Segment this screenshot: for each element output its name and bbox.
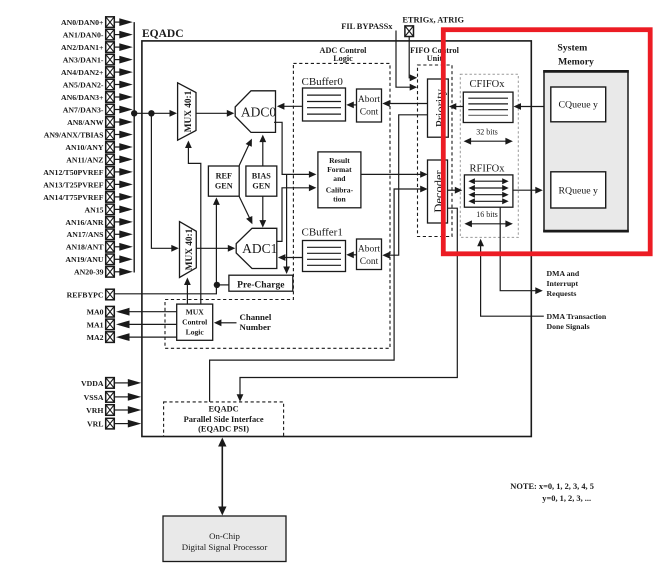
- wire RFIFO to RQueue / System Memory: [513, 187, 543, 194]
- svg-text:VRL: VRL: [87, 420, 103, 429]
- pin AN1/DAN0-: [63, 29, 133, 40]
- wire MUX Control Logic up to MUX1: [184, 278, 191, 305]
- svg-text:Cont: Cont: [360, 108, 379, 118]
- svg-text:CQueue y: CQueue y: [558, 100, 598, 111]
- red highlight box: [443, 30, 650, 254]
- svg-text:MUX: MUX: [186, 307, 205, 316]
- svg-text:32 bits: 32 bits: [476, 128, 498, 137]
- svg-text:AN15: AN15: [84, 205, 103, 214]
- wire Decoder down to EQADC PSI: [237, 208, 458, 402]
- svg-text:Calibra-: Calibra-: [326, 185, 354, 194]
- block CFIFOx register stack: [463, 92, 513, 122]
- pin AN14/T75PVREF: [43, 192, 133, 203]
- label DMA Transaction Done Signals: [547, 312, 607, 331]
- wire ADC0 to Result Format: [274, 122, 316, 178]
- label DMA and Interrupt Requests: [547, 269, 580, 298]
- svg-text:AN12/T50PVREF: AN12/T50PVREF: [43, 168, 103, 177]
- svg-text:AN19/ANU: AN19/ANU: [65, 255, 103, 264]
- pin AN6/DAN3+: [61, 92, 133, 103]
- pin AN4/DAN2+: [61, 67, 133, 78]
- svg-text:MA2: MA2: [87, 333, 104, 342]
- svg-text:DMA and: DMA and: [547, 269, 580, 278]
- wire EQADC PSI up to Decoder: [210, 186, 428, 402]
- svg-text:GEN: GEN: [252, 182, 270, 191]
- svg-text:Parallel Side Interface: Parallel Side Interface: [184, 415, 264, 424]
- svg-text:REF: REF: [216, 172, 232, 181]
- svg-text:ETRIGx, ATRIG: ETRIGx, ATRIG: [402, 15, 464, 24]
- svg-text:VSSA: VSSA: [84, 393, 104, 402]
- svg-text:EQADC: EQADC: [208, 405, 238, 414]
- wire ETRIGx to FIFO Control Unit: [409, 37, 417, 82]
- svg-text:GEN: GEN: [215, 182, 233, 191]
- svg-text:Cont: Cont: [360, 257, 379, 267]
- svg-text:AN20-39: AN20-39: [74, 268, 104, 277]
- wire branch down to MUX1 input: [151, 113, 178, 251]
- svg-text:FIL BYPASSx: FIL BYPASSx: [341, 22, 393, 31]
- double arrow 32 bits width: [464, 138, 513, 145]
- svg-text:NOTE: x=0, 1, 2, 3, 4, 5: NOTE: x=0, 1, 2, 3, 4, 5: [510, 482, 594, 491]
- svg-text:AN9/ANX/TBIAS: AN9/ANX/TBIAS: [44, 130, 104, 139]
- svg-text:AN1/DAN0-: AN1/DAN0-: [63, 31, 104, 40]
- pin VSSA: [84, 392, 142, 403]
- svg-text:AN6/DAN3+: AN6/DAN3+: [61, 93, 104, 102]
- svg-text:Logic: Logic: [186, 327, 205, 336]
- pin AN5/DAN2-: [63, 79, 133, 90]
- svg-text:Format: Format: [327, 165, 352, 174]
- wire REF GEN to ADC1 (diagonal): [239, 197, 252, 225]
- block RQueue y: [551, 172, 606, 208]
- wire BIAS GEN to ADC0: [259, 135, 266, 166]
- svg-text:CFIFOx: CFIFOx: [469, 79, 505, 90]
- svg-text:Digital Signal Processor: Digital Signal Processor: [182, 542, 268, 552]
- dashed box ADC Control Logic: [165, 63, 390, 348]
- label System Memory: [557, 43, 594, 68]
- svg-text:(EQADC PSI): (EQADC PSI): [198, 425, 249, 434]
- svg-text:RFIFOx: RFIFOx: [469, 164, 505, 175]
- block Result Format and Calibration: [318, 152, 361, 208]
- wire Priority to Abort Cont (lower): [382, 115, 427, 259]
- pin AN7/DAN3-: [63, 104, 133, 115]
- wire Abort Cont to CBuffer0: [346, 102, 356, 109]
- block REF GEN: [208, 166, 239, 196]
- svg-text:CBuffer1: CBuffer1: [302, 227, 343, 239]
- pin MA1: [87, 319, 177, 330]
- pin AN10/ANY: [65, 142, 132, 153]
- svg-text:Pre-Charge: Pre-Charge: [237, 280, 284, 290]
- svg-text:DMA Transaction: DMA Transaction: [547, 312, 607, 321]
- pin AN12/T50PVREF: [43, 167, 133, 178]
- svg-text:ADC1: ADC1: [242, 241, 277, 256]
- svg-text:RQueue y: RQueue y: [558, 185, 598, 196]
- svg-text:AN10/ANY: AN10/ANY: [65, 143, 103, 152]
- svg-text:BIAS: BIAS: [252, 172, 272, 181]
- note about x and y values: [510, 482, 594, 503]
- svg-text:Memory: Memory: [558, 56, 594, 67]
- svg-text:Logic: Logic: [333, 54, 353, 63]
- wire BIAS GEN to ADC1: [259, 196, 266, 227]
- pin MA0: [87, 306, 177, 317]
- wire MUX1 output to ADC1: [196, 245, 235, 252]
- svg-text:Channel: Channel: [240, 312, 272, 322]
- svg-text:VDDA: VDDA: [81, 379, 104, 388]
- wire MUX Control Logic up to MUX0: [185, 141, 201, 305]
- svg-text:System: System: [557, 43, 587, 54]
- svg-text:AN11/ANZ: AN11/ANZ: [66, 155, 103, 164]
- pin AN19/ANU: [65, 254, 132, 265]
- svg-text:and: and: [333, 174, 346, 183]
- wire CFIFO to Priority: [449, 103, 464, 110]
- wire CBuffer0 to ADC0: [277, 103, 303, 110]
- svg-text:AN4/DAN2+: AN4/DAN2+: [61, 68, 104, 77]
- wire DMA transaction done signals up into FIFOs: [477, 239, 544, 316]
- pin REFBYPC: [67, 289, 115, 300]
- pin AN20-39: [74, 267, 133, 278]
- svg-text:tion: tion: [333, 195, 346, 204]
- wire Abort Cont to CBuffer1: [346, 251, 356, 258]
- analog input bus: [133, 22, 135, 272]
- label FIFO Control Unit: [410, 46, 459, 63]
- svg-text:16 bits: 16 bits: [476, 210, 498, 219]
- block CQueue y: [551, 87, 606, 122]
- wire MUX0 output to ADC0: [196, 110, 234, 117]
- block Abort Cont (upper): [357, 89, 382, 122]
- MUX 40:1 upper (U-MUX0): [178, 83, 196, 140]
- svg-text:Control: Control: [182, 317, 207, 326]
- svg-text:Result: Result: [329, 156, 350, 165]
- svg-text:EQADC: EQADC: [142, 28, 184, 40]
- pin AN9/ANX/TBIAS: [44, 129, 133, 140]
- svg-text:Requests: Requests: [547, 289, 577, 298]
- label Channel Number with arrow to MUX Control Logic: [214, 312, 272, 332]
- block CBuffer1: [303, 241, 346, 272]
- svg-text:On-Chip: On-Chip: [209, 531, 240, 541]
- svg-text:AN8/ANW: AN8/ANW: [67, 118, 104, 127]
- svg-text:AN7/DAN3-: AN7/DAN3-: [63, 105, 104, 114]
- pin AN16/ANR: [65, 217, 132, 228]
- wire bus to MUX0 input: [134, 110, 177, 117]
- pin MA2: [87, 332, 177, 343]
- svg-text:MUX 40:1: MUX 40:1: [184, 90, 194, 132]
- wire REFBYPC to REF GEN (via Pre-Charge junction): [114, 197, 220, 293]
- pin AN8/ANW: [67, 117, 133, 128]
- wire junction to Pre-Charge: [216, 284, 229, 286]
- svg-text:Interrupt: Interrupt: [547, 279, 579, 288]
- MUX 40:1 lower (U-MUX1): [180, 222, 197, 278]
- svg-text:MA1: MA1: [87, 320, 104, 329]
- wire ADC1 to Result Format: [277, 184, 317, 241]
- svg-text:MUX 40:1: MUX 40:1: [185, 228, 195, 270]
- svg-text:y=0, 1, 2, 3, ...: y=0, 1, 2, 3, ...: [542, 494, 591, 503]
- pin AN18/ANT: [66, 242, 133, 253]
- wire CBuffer1 to ADC1: [278, 254, 303, 261]
- pin VDDA: [81, 378, 141, 389]
- dashed box FIFO registers: [460, 74, 518, 237]
- block CBuffer0: [303, 88, 346, 121]
- svg-text:AN0/DAN0+: AN0/DAN0+: [61, 18, 104, 27]
- double arrow 16 bits width: [464, 220, 513, 227]
- block RFIFOx register stack: [464, 175, 513, 207]
- svg-text:CBuffer0: CBuffer0: [302, 76, 344, 88]
- wire Priority to Abort Cont (upper): [382, 100, 427, 107]
- block Pre-Charge: [229, 275, 293, 291]
- svg-text:VRH: VRH: [86, 406, 103, 415]
- pin VRH: [86, 405, 141, 416]
- svg-text:Number: Number: [240, 322, 271, 332]
- EQADC module outer box: [142, 41, 531, 437]
- svg-text:MA0: MA0: [87, 308, 104, 317]
- pin AN11/ANZ: [66, 154, 133, 165]
- svg-text:AN3/DAN1-: AN3/DAN1-: [63, 56, 104, 65]
- junction node branch: [148, 110, 154, 116]
- pin AN3/DAN1-: [63, 54, 133, 65]
- wire FIL BYPASSx to FIFO Control Unit: [396, 31, 417, 91]
- svg-text:AN16/ANR: AN16/ANR: [65, 218, 103, 227]
- pin AN0/DAN0+: [61, 17, 133, 28]
- block System Memory: [543, 71, 629, 232]
- svg-text:AN13/T25PVREF: AN13/T25PVREF: [43, 180, 103, 189]
- wire EQADC PSI to DSP (bidirectional): [218, 438, 226, 516]
- svg-text:Done Signals: Done Signals: [547, 322, 590, 331]
- block Priority: [428, 79, 449, 137]
- pin AN13/T25PVREF: [43, 179, 133, 190]
- dashed box FIFO Control Unit: [418, 65, 453, 237]
- wire RFIFO down to DMA and interrupt requests: [500, 207, 543, 294]
- block On-Chip Digital Signal Processor: [163, 516, 286, 562]
- junction node on bus: [131, 110, 137, 116]
- pin VRL: [87, 418, 141, 429]
- pin AN2/DAN1+: [61, 42, 133, 53]
- block MUX Control Logic: [177, 304, 213, 340]
- svg-text:AN17/ANS: AN17/ANS: [67, 230, 104, 239]
- svg-text:Abort: Abort: [358, 245, 381, 255]
- dashed box EQADC Parallel Side Interface: [164, 402, 284, 437]
- junction node at Pre-Charge: [214, 282, 220, 288]
- svg-text:REFBYPC: REFBYPC: [67, 290, 104, 299]
- svg-text:ADC0: ADC0: [241, 105, 277, 120]
- wire Result Format to Decoder: [361, 171, 428, 178]
- pin AN17/ANS: [67, 229, 133, 240]
- label ADC Control Logic: [320, 46, 368, 63]
- svg-text:AN5/DAN2-: AN5/DAN2-: [63, 80, 104, 89]
- block Decoder: [428, 160, 448, 223]
- wire CQueue to CFIFO: [514, 103, 551, 110]
- wire branch down to Pre-Charge: [283, 174, 290, 274]
- wire Decoder to RFIFO: [448, 187, 463, 194]
- svg-text:AN18/ANT: AN18/ANT: [66, 243, 104, 252]
- svg-text:Abort: Abort: [358, 95, 381, 105]
- ADC1: [236, 228, 277, 268]
- wire REF GEN to ADC0 (diagonal): [239, 139, 252, 166]
- svg-text:AN2/DAN1+: AN2/DAN1+: [61, 43, 104, 52]
- svg-text:AN14/T75PVREF: AN14/T75PVREF: [43, 193, 103, 202]
- svg-text:Unit: Unit: [427, 54, 443, 63]
- pin AN15: [84, 204, 132, 215]
- pad ETRIGx: [405, 26, 414, 37]
- block Abort Cont (lower): [357, 239, 382, 270]
- ADC0: [235, 91, 276, 133]
- block BIAS GEN: [246, 166, 277, 196]
